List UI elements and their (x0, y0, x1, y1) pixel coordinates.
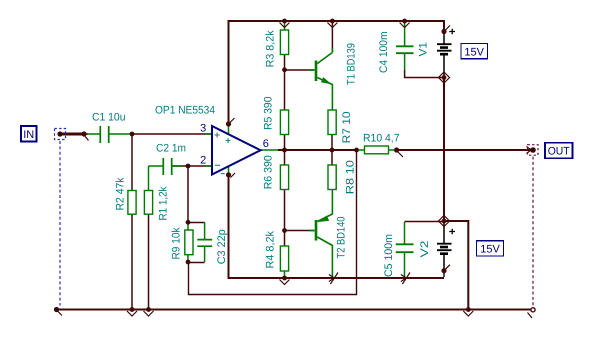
svg-text:3: 3 (200, 123, 206, 135)
wire R2 bottom vertical to ground (131, 214, 133, 309)
junction marker top rail R3 (282, 19, 287, 24)
wire V2+ junction to ground drop (444, 221, 468, 309)
diamond junction V2 top (439, 216, 450, 227)
op-amp V+ pin node with tick (226, 121, 231, 126)
resistor R4 (280, 246, 288, 271)
svg-text:R1 1,2k: R1 1,2k (158, 186, 170, 220)
svg-text:R6 390: R6 390 (263, 155, 275, 189)
wire R2 top vertical (131, 134, 133, 191)
svg-text:V1: V1 (418, 42, 430, 57)
wire output row left of R10 (278, 149, 357, 151)
wire T1 base (285, 69, 315, 71)
node V1 top with tick (441, 29, 446, 34)
capacitor C2 (149, 165, 183, 167)
resistor R7 (328, 110, 336, 135)
wire R6 bottom to T2 base node (284, 190, 286, 231)
wire C5 top link (405, 221, 445, 223)
node IN wire end dot with tick (81, 131, 86, 136)
wire V2 bottom to negative rail end (443, 271, 445, 277)
wire R4 bottom lead (284, 271, 286, 277)
node OUT with chevron (527, 147, 532, 154)
wire T1 collector vertical (331, 22, 333, 52)
junction marker ground R1 (146, 307, 151, 312)
svg-text:OUT: OUT (548, 146, 570, 158)
junction marker ground R2 (130, 307, 135, 312)
node pin2 junction (186, 164, 191, 169)
ground rail right end node (531, 308, 535, 312)
node T2 base R4 top (282, 228, 287, 233)
junction marker ground supply drop (466, 307, 471, 312)
wire C4 bottom corner to V1 junction (405, 70, 444, 78)
resistor R1 (148, 166, 150, 191)
transistor Q2 T2 BD140 (309, 190, 332, 278)
resistor R2 (128, 191, 136, 215)
transistor Q1 T1 BD139 (309, 48, 332, 110)
wire T2 base (285, 230, 315, 232)
wire R3 bottom to R5 top through node (284, 55, 286, 111)
ground rail left end node with tick (54, 307, 59, 312)
node R3 bottom T1 base (282, 67, 287, 72)
node R9 bottom (186, 260, 191, 265)
ground rail (56, 309, 533, 311)
wire long vertical V1- to V2+ (443, 78, 445, 222)
junction marker top rail T1 collector (330, 19, 335, 24)
wire R1 bottom vertical to ground (148, 214, 150, 309)
dashed selection box at IN node (55, 129, 66, 140)
node IN left dot (57, 131, 62, 136)
svg-text:C4 100m: C4 100m (378, 32, 390, 74)
svg-text:C1 10u: C1 10u (92, 112, 126, 124)
svg-text:C5 100m: C5 100m (383, 234, 395, 277)
wire top rail with corners to op-amp V+ pin and to V1 (229, 21, 445, 124)
junction marker neg rail R4 (282, 276, 287, 281)
wire pin2 row (173, 165, 213, 167)
capacitor C4 (404, 23, 406, 70)
port box OUT (545, 143, 573, 159)
resistor R6 (280, 165, 288, 190)
wire C1 to op-amp pin3 (84, 133, 212, 135)
junction marker top rail C4 (402, 19, 407, 24)
op-amp V- pin node with tick (226, 172, 231, 177)
capacitor C5 (404, 222, 406, 277)
wire R3 node column (284, 22, 286, 30)
node C1-R2 junction (130, 132, 135, 137)
wire R9 to C3 top link (188, 222, 205, 224)
resistor R5 (280, 110, 288, 135)
wire op-amp V- pin down and negative rail to V2 (229, 175, 445, 278)
node R7-R8 output (330, 148, 335, 153)
svg-text:OP1 NE5534: OP1 NE5534 (155, 105, 215, 117)
node R5-R6 output (282, 148, 287, 153)
dashed selection box at OUT node (528, 145, 539, 156)
battery V1 (437, 29, 455, 78)
svg-text:6: 6 (263, 138, 269, 150)
junction marker neg rail C5 (401, 275, 406, 282)
resistor R3 (280, 30, 288, 55)
svg-text:T2 BD140: T2 BD140 (336, 217, 348, 259)
node R9 top (186, 220, 191, 225)
svg-text:R3 8,2k: R3 8,2k (265, 30, 277, 67)
dashed wire OUT node to ground (532, 157, 534, 308)
svg-text:R2 47k: R2 47k (115, 177, 127, 210)
node V2 bottom with tick (441, 268, 446, 273)
wire R8 top (331, 150, 333, 165)
supply box 15V bottom (477, 241, 504, 256)
wire node to R9 top (187, 166, 189, 222)
op-amp U1 OP1 NE5534 (205, 127, 278, 174)
wire R4 top lead (284, 231, 286, 247)
node R10 left feedback junction (354, 148, 359, 153)
wire R5 bottom to output row (284, 135, 286, 151)
svg-text:C3 22p: C3 22p (216, 229, 228, 264)
junction marker neg rail T2 collector (329, 275, 334, 282)
port box IN (21, 126, 37, 142)
svg-text:T1 BD139: T1 BD139 (346, 43, 358, 85)
wire output row right of R10 to OUT (397, 149, 533, 151)
svg-text:C2 1m: C2 1m (156, 143, 186, 155)
svg-text:IN: IN (23, 129, 34, 141)
resistor R8 (328, 165, 336, 190)
node R10 right with tick (394, 147, 399, 152)
svg-text:R9 10k: R9 10k (171, 227, 183, 259)
svg-text:R7 10: R7 10 (341, 111, 353, 143)
svg-text:R10 4,7: R10 4,7 (363, 133, 400, 145)
svg-text:15V: 15V (464, 46, 484, 58)
wire feedback from R9 bottom to output row (189, 150, 357, 295)
svg-text:2: 2 (200, 155, 206, 167)
op-amp plus/minus marks (215, 133, 231, 174)
resistor R9 (187, 222, 189, 262)
wire R6 top (284, 150, 286, 165)
svg-text:15V: 15V (480, 244, 500, 256)
dashed wire IN node to ground (59, 141, 61, 306)
capacitor C3 (204, 222, 206, 262)
resistor R10 (357, 149, 397, 151)
wire R7 bottom to output row (331, 135, 333, 151)
capacitor C1 (88, 133, 132, 135)
svg-text:V2: V2 (419, 241, 431, 258)
diamond junction V1 bottom (439, 72, 450, 83)
svg-text:R4 8,2k: R4 8,2k (265, 231, 277, 269)
svg-text:R5 390: R5 390 (263, 97, 275, 131)
battery V2 (437, 221, 455, 271)
svg-text:R8 10: R8 10 (345, 160, 357, 194)
wire input node bold segment (60, 133, 84, 136)
supply box 15V top (461, 44, 488, 59)
wire R9 to C3 bottom link (188, 262, 205, 264)
